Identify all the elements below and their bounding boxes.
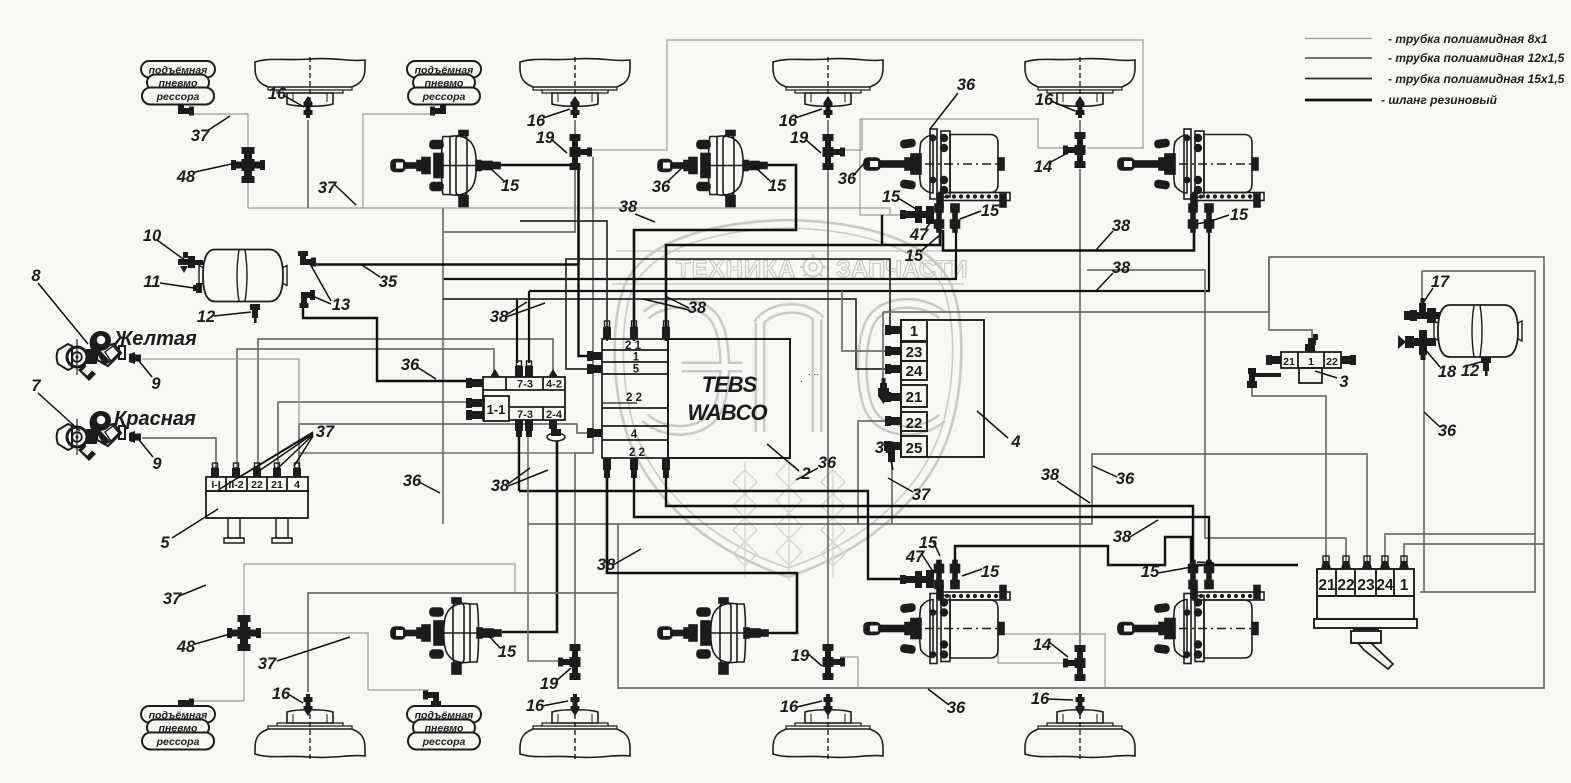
- elbow 13 upper: [298, 251, 316, 267]
- wire 35 reservoir elbow lower to valve block: [303, 299, 474, 381]
- svg-text:21: 21: [1283, 356, 1295, 368]
- svg-text:- трубка полиамидная 12х1,5: - трубка полиамидная 12х1,5: [1388, 51, 1565, 65]
- leader 37 upper mid: [334, 184, 356, 205]
- leader 7: [38, 393, 80, 431]
- svg-text:9: 9: [152, 455, 162, 473]
- leader 36 rear: [928, 689, 949, 705]
- wire 36 port block 23 feed2: [842, 291, 892, 351]
- svg-text:35: 35: [379, 273, 398, 291]
- port block labels: [906, 323, 923, 457]
- svg-text:5: 5: [160, 534, 170, 552]
- svg-text:16: 16: [1035, 91, 1054, 109]
- leader 38 right a: [1096, 231, 1113, 250]
- svg-text:2: 2: [800, 465, 810, 483]
- leader 36 B2: [667, 167, 683, 182]
- wire 36 manifold to valve block: [278, 402, 473, 471]
- TEBS ECU module: [668, 339, 819, 458]
- pressure valve at port 21: [878, 378, 889, 404]
- svg-text:36: 36: [818, 454, 837, 472]
- wire 38 chamber T1 park line: [443, 230, 956, 279]
- svg-text:37: 37: [163, 590, 182, 608]
- air reservoir right: [1434, 305, 1522, 357]
- leader 36 mid left b: [419, 482, 440, 493]
- leader 15 chR1: [933, 541, 940, 556]
- balloon label front B: [407, 61, 481, 105]
- svg-text:38: 38: [491, 477, 510, 495]
- svg-text:15: 15: [1230, 206, 1249, 224]
- wire 38 valve block riser 2: [516, 299, 518, 363]
- svg-text:37: 37: [258, 655, 277, 673]
- wire 37 cross to balloon B rear: [262, 633, 429, 690]
- leader 36 left of block: [796, 468, 818, 480]
- fitting 16 bellows B3 rear: [824, 694, 833, 716]
- brake booster T2: [658, 131, 767, 207]
- svg-text:16: 16: [1031, 690, 1050, 708]
- svg-text:14: 14: [1033, 636, 1051, 654]
- svg-text:38: 38: [688, 299, 707, 317]
- fitting 16 bellows B2 rear: [571, 694, 580, 716]
- svg-text:18: 18: [1438, 363, 1457, 381]
- svg-text:Красная: Красная: [114, 408, 196, 430]
- svg-text:38: 38: [1041, 466, 1060, 484]
- leader 38 rear right: [1130, 520, 1158, 537]
- manifold 5 port labels: [211, 479, 300, 491]
- svg-text:15: 15: [1141, 563, 1160, 581]
- svg-text:10: 10: [143, 227, 162, 245]
- wire 36 bellows B1 rear riser: [308, 593, 618, 692]
- watermark band text: [676, 256, 968, 283]
- fitting 16 bellows B2: [571, 96, 580, 118]
- leader 37 fan manifold: [218, 432, 313, 490]
- lift axle valve 3: [1281, 352, 1341, 383]
- leader 9 yellow: [139, 361, 152, 377]
- fitting 10 reservoir valve: [178, 252, 203, 273]
- svg-text:1-1: 1-1: [487, 402, 506, 417]
- tee 14 bellows B4 rear: [1063, 645, 1086, 681]
- port block 4: [901, 320, 984, 457]
- leader 14 rear: [1049, 642, 1068, 657]
- air bellows B3 rear: [773, 710, 883, 759]
- wire 36 manifold to valve port A: [237, 349, 494, 471]
- leader 4: [977, 411, 1008, 438]
- wire 38 chamber T1 to chamber T2 service: [943, 230, 1194, 251]
- leader 16 rear B3: [797, 701, 822, 707]
- svg-text:2 2: 2 2: [626, 392, 642, 404]
- TEBS port strip: [602, 339, 668, 458]
- svg-text:Желтая: Желтая: [113, 328, 197, 350]
- svg-text:1: 1: [1308, 356, 1314, 368]
- valve 3 fittings: [1247, 334, 1356, 388]
- svg-text:16: 16: [527, 112, 546, 130]
- svg-text:TEBS: TEBS: [702, 372, 758, 397]
- wire 37 elbow to cross rear: [192, 700, 244, 702]
- leader 38 mid d: [613, 549, 641, 565]
- wire 38 TEBS bottom port 2: [666, 476, 1193, 563]
- svg-text:16: 16: [780, 698, 799, 716]
- wire 36 bellows B1 drop: [307, 120, 309, 208]
- TEBS strip labels: [625, 340, 645, 459]
- svg-text:22: 22: [906, 415, 923, 432]
- svg-text:1: 1: [1400, 577, 1409, 594]
- wire 36 bellows B2 drop: [443, 170, 575, 232]
- wire 37 lift line front right: [363, 114, 432, 208]
- leader 17: [1423, 288, 1433, 303]
- svg-text:38: 38: [1112, 217, 1131, 235]
- air bellows B3 front: [773, 57, 883, 106]
- svg-text:1: 1: [633, 352, 640, 364]
- wire 38 TEBS top port drop: [520, 221, 607, 341]
- wire 35 reservoir elbow to TEBS port 1: [314, 265, 593, 357]
- svg-text:WABCO: WABCO: [687, 400, 767, 425]
- wire 37 valve to tee19 rear: [528, 437, 560, 661]
- svg-text:16: 16: [272, 685, 291, 703]
- svg-text:37: 37: [318, 179, 337, 197]
- fitting 16 bellows B1: [304, 96, 313, 118]
- svg-text:11: 11: [143, 273, 160, 291]
- leader 47 ch1: [925, 219, 933, 230]
- fitting 16 bellows B3: [824, 96, 833, 118]
- svg-text:4-2: 4-2: [546, 379, 562, 391]
- fitting 16 bellows B1 rear: [304, 694, 313, 716]
- leader 16 B1: [283, 95, 304, 107]
- svg-text:7: 7: [31, 377, 41, 395]
- watermark letters epc: [645, 303, 942, 432]
- leader 10: [157, 240, 186, 261]
- svg-text:3: 3: [1339, 373, 1348, 391]
- legend: [1305, 32, 1565, 107]
- svg-text:5: 5: [633, 364, 640, 376]
- leader 12 left: [214, 312, 251, 316]
- leader 16 rear B2: [542, 701, 568, 706]
- wire 36 supply trunk to levelling valve: [528, 454, 1367, 562]
- air bellows B2 rear: [520, 710, 630, 759]
- svg-text:37: 37: [316, 423, 335, 441]
- svg-text:38: 38: [597, 556, 616, 574]
- air bellows B1 rear: [255, 710, 365, 759]
- leader 36 mid left a: [417, 367, 436, 379]
- unit port labels: [1318, 577, 1408, 594]
- valve 18 reservoir right: [1398, 330, 1436, 360]
- svg-text:36: 36: [652, 178, 671, 196]
- svg-text:4: 4: [294, 479, 300, 491]
- palm coupling red: [57, 411, 126, 461]
- fitting 16 bellows B4: [1076, 96, 1085, 118]
- svg-text:38: 38: [490, 308, 509, 326]
- wire 36 unit port 24 riser: [1385, 534, 1535, 562]
- svg-text:48: 48: [176, 168, 196, 186]
- wire port block 25 drop: [891, 461, 893, 524]
- svg-text:47: 47: [905, 548, 925, 566]
- wire 36 unit port 23 riser: [1087, 270, 1346, 562]
- wire 36 reservoir R tee riser: [1421, 271, 1423, 303]
- tee 47 chamber R1: [900, 570, 934, 588]
- spring brake chamber T1: [864, 129, 1010, 232]
- svg-text:47: 47: [909, 226, 929, 244]
- wire 38 valve block riser: [528, 291, 530, 363]
- wire 38 TEBS bottom port 1: [634, 476, 1209, 563]
- leader 15 ch1 left: [898, 198, 921, 212]
- fitting 16 bellows B4 rear: [1076, 694, 1085, 716]
- air bellows B1 front: [255, 57, 365, 106]
- svg-text:36: 36: [401, 356, 420, 374]
- fitting 9 red: [129, 431, 141, 443]
- leader 37 front: [207, 116, 230, 131]
- svg-text:15: 15: [501, 177, 520, 195]
- leader 36 B3: [853, 160, 867, 176]
- unit port stubs: [1321, 556, 1409, 569]
- wire 38 booster T1 feed: [577, 165, 580, 265]
- svg-text:16: 16: [268, 85, 287, 103]
- svg-text:23: 23: [906, 344, 923, 361]
- svg-text:24: 24: [906, 363, 923, 380]
- leader 16 B3: [795, 109, 822, 118]
- tee 19 bellows B3 rear: [823, 644, 846, 680]
- svg-text:19: 19: [540, 675, 559, 693]
- levelling valve unit 22: [1314, 569, 1417, 669]
- svg-text:19: 19: [536, 129, 555, 147]
- wire 35 tee19 B3 branch: [840, 119, 862, 150]
- watermark wheat sheaf: [733, 453, 845, 581]
- svg-text:36: 36: [1438, 422, 1457, 440]
- air bellows B4 front: [1025, 57, 1135, 106]
- leader 9 red: [139, 440, 153, 457]
- leader 11: [160, 283, 194, 288]
- wire 36 manifold to valve port B: [258, 339, 553, 471]
- watermark gear: [800, 254, 826, 280]
- leader 16 R1: [288, 694, 303, 703]
- wire 36 tee19 branch to rear: [575, 157, 593, 645]
- brake booster R1: [391, 598, 501, 674]
- svg-text:17: 17: [1431, 273, 1450, 291]
- svg-text:21: 21: [906, 389, 923, 406]
- leader 3: [1315, 371, 1337, 378]
- svg-text:15: 15: [768, 177, 787, 195]
- svg-text:4: 4: [631, 429, 638, 441]
- leader 19 B2: [551, 139, 567, 153]
- leader 37 rear left: [179, 585, 206, 596]
- tee 14 bellows B4: [1063, 132, 1086, 168]
- drain valve 12 reservoir left: [250, 304, 260, 323]
- svg-text:- шланг резиновый: - шланг резиновый: [1381, 93, 1498, 107]
- balloon label rear A: [141, 706, 215, 750]
- manifold block 5: [206, 477, 308, 543]
- leader 47 rear: [921, 553, 934, 573]
- tee 17 reservoir right: [1404, 298, 1440, 323]
- svg-text:2-4: 2-4: [546, 409, 563, 421]
- leader 14 B4: [1049, 151, 1071, 163]
- svg-text:2 2: 2 2: [629, 447, 645, 459]
- wire 37 cross48 rear riser: [243, 564, 245, 701]
- wire 38 booster R2 feed: [607, 476, 797, 633]
- wire 36 bellows B4 to B4-rear: [1079, 169, 1081, 648]
- svg-text:22: 22: [1326, 356, 1338, 368]
- wire 36 unit port 1 riser: [1404, 544, 1544, 562]
- wire 38 TEBS port5 and block feed: [566, 259, 892, 369]
- drain valve 12 reservoir right: [1481, 357, 1491, 376]
- leader 13 fan: [309, 262, 331, 301]
- wire 35 tee47 to tee14: [860, 119, 1064, 215]
- svg-text:36: 36: [957, 76, 976, 94]
- svg-text:21: 21: [271, 479, 283, 491]
- elbow fitting front balloon B: [430, 100, 448, 116]
- elbow 13 lower: [300, 290, 316, 308]
- wire 36 valve3 supply drop: [1269, 257, 1312, 344]
- fitting 9 yellow: [129, 352, 141, 364]
- wire 36 reservoir R inner loop: [1420, 271, 1535, 592]
- wire 36 valve 18 drop: [1423, 360, 1425, 592]
- svg-text:4: 4: [1010, 433, 1020, 451]
- wire 36 drop link: [442, 208, 444, 524]
- leader 38 upper mid: [635, 214, 655, 222]
- leader 35: [362, 265, 380, 277]
- wire port block 22 feed: [858, 421, 892, 524]
- wire 38 booster T1 hose: [500, 164, 579, 167]
- svg-text:21: 21: [1318, 577, 1336, 594]
- svg-text:36: 36: [403, 472, 422, 490]
- leader 12 right: [1463, 361, 1484, 367]
- balloon label rear B: [407, 706, 481, 750]
- port block left fittings: [884, 325, 901, 462]
- leader 16 B2: [543, 109, 570, 118]
- leader 38 right b: [1096, 273, 1113, 291]
- cross fitting 48 rear: [227, 615, 261, 651]
- leader 2: [767, 444, 799, 471]
- svg-text:36: 36: [838, 170, 857, 188]
- svg-text:37: 37: [912, 486, 931, 504]
- balloon label front A: [141, 61, 215, 105]
- wire 37 tee19 rear right branch: [840, 657, 858, 688]
- svg-text:38: 38: [1112, 259, 1131, 277]
- svg-text:- трубка полиамидная 8х1: - трубка полиамидная 8х1: [1388, 32, 1548, 46]
- leader 19 B3: [805, 139, 821, 153]
- palm coupling yellow: [57, 331, 126, 381]
- leader 36 T: [930, 93, 958, 129]
- leader 48 rear: [195, 634, 230, 644]
- leader 15 chR1 b: [962, 569, 982, 576]
- elbow fitting rear balloon B: [423, 691, 441, 707]
- wire 38 booster R1 feed: [502, 441, 557, 632]
- air reservoir left: [199, 250, 287, 302]
- spring brake chamber R1: [864, 561, 1010, 664]
- valve block ports: [466, 361, 565, 441]
- wire 38 valve block lower port line: [518, 437, 520, 491]
- wire 36 supply loop right: [618, 257, 1544, 688]
- wire 36 manifold to TEBS port 4: [299, 424, 587, 471]
- brake booster T1: [391, 131, 500, 207]
- leader 15 ch2 pair: [1197, 215, 1229, 224]
- svg-text:15: 15: [981, 202, 1000, 220]
- svg-text:15: 15: [981, 563, 1000, 581]
- wire 36 mid link: [299, 452, 575, 454]
- svg-text:22: 22: [1337, 577, 1354, 594]
- wire 38 tee47 to trunk: [881, 215, 883, 245]
- wire 38 chamber R1 service: [519, 491, 900, 579]
- svg-text:16: 16: [526, 697, 545, 715]
- leader 16 B4: [1051, 101, 1075, 111]
- air bellows B4 rear: [1025, 710, 1135, 759]
- svg-text:13: 13: [332, 296, 350, 314]
- svg-text:16: 16: [779, 112, 798, 130]
- wire 36 valve3 to unit port 21: [1252, 388, 1326, 562]
- svg-text:25: 25: [906, 440, 923, 457]
- tee 19 bellows B3: [823, 134, 846, 170]
- leader 19 rear B2: [556, 668, 571, 681]
- leader 37 port25: [890, 456, 893, 470]
- svg-text:. ..: . ..: [808, 367, 819, 378]
- svg-text:9: 9: [151, 375, 161, 393]
- svg-text:- трубка полиамидная 15х1,5: - трубка полиамидная 15х1,5: [1388, 72, 1565, 86]
- tee 19 bellows B2 rear: [558, 644, 581, 680]
- svg-text:37: 37: [875, 439, 894, 457]
- svg-text:7-3: 7-3: [517, 409, 533, 421]
- TEBS bottom ports: [603, 458, 670, 478]
- svg-text:II-2: II-2: [228, 479, 243, 491]
- tee 47 chamber T1: [900, 206, 934, 224]
- elbow fitting rear balloon A: [176, 699, 194, 715]
- leader 37 rear mid: [277, 637, 350, 661]
- svg-text:22: 22: [251, 479, 263, 491]
- manifold 5 port stubs: [211, 463, 301, 477]
- spring brake chamber T2: [1118, 129, 1264, 232]
- wire 36 bellows B4 riser: [1079, 120, 1081, 133]
- wire 38 trunk 299: [443, 299, 892, 369]
- cross fitting 48 front: [231, 147, 265, 183]
- leader 8: [38, 283, 88, 344]
- wire 38 TEBS 22 port to chamber T1: [666, 230, 940, 341]
- watermark shield outline: [612, 220, 964, 577]
- spring brake chamber R2: [1118, 561, 1264, 664]
- leader 36 unit right: [1424, 412, 1440, 427]
- wire 37 lift trunk: [248, 208, 914, 215]
- wire 37 lift line front left: [192, 114, 248, 208]
- svg-text:2 1: 2 1: [625, 340, 642, 352]
- leader 48 front: [195, 163, 236, 172]
- leader 15 ch1 pair: [960, 211, 981, 219]
- leader 38 right mid: [1057, 481, 1090, 503]
- wire 37 tee14 rear branch: [998, 634, 1105, 688]
- wire 36 bellows B3 to B3-rear: [827, 170, 829, 645]
- leader 15 R boost: [489, 636, 500, 648]
- svg-text:12: 12: [1461, 362, 1479, 380]
- wire 36 coupling yellow to manifold: [142, 359, 299, 425]
- TEBS top ports: [603, 321, 670, 339]
- svg-text:15: 15: [905, 247, 924, 265]
- leader 38 mid b: [667, 297, 689, 308]
- svg-text:7-3: 7-3: [517, 379, 533, 391]
- valve block assembly 1-1: [483, 377, 565, 421]
- svg-text:37: 37: [191, 127, 210, 145]
- wire 38 booster T2 hose: [634, 165, 796, 341]
- svg-text:38: 38: [1113, 528, 1132, 546]
- svg-text:15: 15: [498, 643, 517, 661]
- leader 36 right mid: [1093, 466, 1117, 477]
- svg-text:19: 19: [791, 647, 810, 665]
- leader 16 rear B4: [1047, 699, 1073, 700]
- air bellows B2 front: [520, 57, 630, 106]
- brake booster R2: [658, 598, 768, 674]
- tee 19 bellows B2: [570, 134, 593, 170]
- wire 36 bellows B3 riser: [827, 120, 829, 134]
- wire 36 coupling red to manifold: [142, 438, 216, 471]
- svg-text:38: 38: [619, 198, 638, 216]
- svg-text:19: 19: [790, 129, 809, 147]
- svg-text:24: 24: [1376, 577, 1394, 594]
- svg-text:48: 48: [176, 638, 196, 656]
- elbow fitting front balloon A: [176, 100, 194, 116]
- wire 38 rear park trunk: [955, 537, 1298, 565]
- leader 38 mid c: [508, 468, 530, 484]
- svg-text:.: .: [800, 374, 803, 385]
